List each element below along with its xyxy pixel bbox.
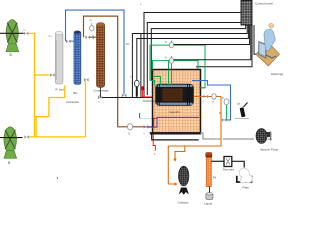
valve V6 blue line bottom bbox=[122, 94, 127, 98]
gauge G7 orange line bbox=[212, 94, 216, 100]
svg-text:Data logger: Data logger bbox=[271, 72, 283, 76]
gauge G1 near condensate top bbox=[90, 26, 94, 31]
control panel bbox=[241, 1, 252, 26]
green probes overlay inside furnace bbox=[150, 70, 205, 88]
red stub inside furnace wall bbox=[153, 118, 157, 126]
valve V8 purple on gas line bbox=[144, 125, 149, 129]
reactor kiln bbox=[143, 84, 194, 106]
riser column (gray) bbox=[55, 32, 63, 85]
svg-text:Gas kiln: Gas kiln bbox=[170, 110, 181, 114]
cable C5 bbox=[140, 34, 142, 98]
valve V1 at fan B1 bbox=[24, 32, 29, 36]
cable C4 bbox=[132, 25, 247, 98]
svg-text:Liquid: Liquid bbox=[205, 202, 213, 206]
svg-text:Condensate: Condensate bbox=[94, 89, 110, 93]
green probes into reactor bbox=[168, 61, 170, 86]
svg-text:Brs: Brs bbox=[74, 91, 79, 95]
valve V2 at fan B2 bbox=[24, 135, 29, 139]
svg-text:Vacuum Pump: Vacuum Pump bbox=[260, 148, 279, 152]
blue pipe riser top loop bbox=[66, 10, 125, 94]
accumulator column (blue plaid) bbox=[74, 31, 81, 85]
valve V10 orange bbox=[204, 95, 209, 99]
cable C2 bbox=[147, 23, 244, 96]
green probe tick left of furnace bbox=[139, 113, 141, 118]
gas flow meter bbox=[224, 157, 232, 167]
furnace bbox=[150, 70, 201, 134]
cable C3 bbox=[151, 25, 245, 80]
svg-text:Control panel: Control panel bbox=[255, 2, 273, 6]
line meter to flare bbox=[232, 161, 244, 167]
vacuum pump bbox=[256, 129, 271, 144]
yellow staircase from riser bottom bbox=[36, 85, 65, 137]
svg-text:R. bed: R. bed bbox=[56, 88, 65, 92]
gauge G5 on loop2 bbox=[169, 58, 173, 64]
svg-text:DC: DC bbox=[23, 30, 27, 32]
cable C6 bbox=[137, 25, 249, 98]
blower fan B2 (bottom left) bbox=[0, 127, 23, 158]
purple heater line bbox=[148, 117, 199, 127]
svg-text:Flow meter: Flow meter bbox=[223, 169, 235, 172]
cable panel to computer bbox=[254, 25, 273, 54]
green control loop 2 bbox=[153, 61, 199, 77]
valve V4 at accumulator inlet bbox=[84, 78, 89, 82]
filter column bbox=[206, 153, 212, 187]
svg-text:PI: PI bbox=[90, 20, 93, 23]
cable C8 reactor right bbox=[196, 25, 252, 67]
condensate column (brown plaid) bbox=[97, 23, 105, 88]
valve V9 condensate outlet bbox=[98, 96, 103, 100]
blue pyrolysis gas loop right bbox=[192, 81, 231, 120]
brown pipe condensate loop bbox=[84, 16, 153, 127]
vacuum gauge icon bbox=[235, 103, 249, 119]
svg-text:FD: FD bbox=[126, 42, 130, 46]
svg-text:T: T bbox=[154, 153, 156, 157]
svg-text:Collector: Collector bbox=[178, 201, 189, 205]
furnace exhaust to vacuum line bbox=[152, 135, 199, 140]
speck bbox=[57, 177, 58, 178]
green control loop 1 bbox=[150, 45, 205, 88]
cable from gauge G4 to panel bbox=[174, 25, 250, 45]
orange vapour line bbox=[194, 96, 221, 98]
gauge G3 on cable C6 bbox=[134, 80, 139, 86]
svg-text:VP: VP bbox=[237, 103, 241, 106]
blower fan B1 (top left) bbox=[0, 20, 24, 52]
yellow pipe fan B1 to riser column bbox=[29, 33, 35, 136]
gas meter line bbox=[211, 160, 224, 162]
gauge G2 on brown gas line bbox=[127, 124, 132, 130]
gauge G4 on loop1 bbox=[169, 42, 173, 48]
red valve RV bbox=[141, 86, 143, 90]
valve V7 condensate top inlet bbox=[85, 35, 90, 39]
cooling water line (teal) bbox=[140, 117, 152, 119]
condensate outlet line bbox=[100, 87, 102, 97]
valve V3 on riser inlet bbox=[50, 73, 55, 77]
cable from gauge G5 to panel bbox=[174, 25, 251, 60]
operator computer bbox=[256, 23, 280, 66]
valve V5 accumulator top bbox=[66, 39, 71, 43]
yellow bottom manifold bbox=[29, 81, 86, 137]
svg-text:Incinerator: Incinerator bbox=[66, 100, 79, 104]
gauge G6 on blue loop bbox=[224, 99, 229, 105]
svg-text:Flare: Flare bbox=[243, 186, 250, 190]
liquid pot bbox=[209, 187, 211, 193]
cyclone separator bbox=[179, 166, 190, 195]
flare bbox=[237, 168, 253, 183]
cable C1 bbox=[144, 13, 241, 98]
svg-text:Flt: Flt bbox=[213, 176, 216, 180]
